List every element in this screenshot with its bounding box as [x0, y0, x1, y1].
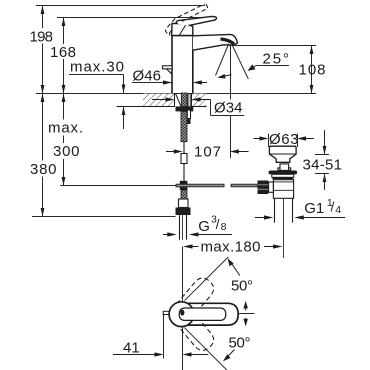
pop-up rod upper — [187, 110, 190, 119]
svg-text:/: / — [216, 216, 220, 232]
centerline stub right — [239, 313, 255, 315]
dimension G1 1/4 — [255, 217, 265, 219]
dimension 107 — [166, 151, 175, 153]
dimension 108 — [232, 45, 316, 47]
svg-text:107: 107 — [194, 144, 221, 161]
svg-text:108: 108 — [299, 62, 326, 79]
spray cone lines — [216, 44, 229, 76]
spout outlet dark band — [221, 39, 235, 44]
top view: lever stadium solid — [182, 303, 239, 325]
pop-up waste plug — [269, 146, 296, 162]
supply hose upper — [183, 142, 185, 154]
pop-up knob on body — [163, 66, 173, 69]
extension line top (198 level, top of raised lever) — [36, 5, 205, 7]
top view: dark recess dot — [180, 310, 184, 316]
label 380 — [29, 161, 57, 177]
svg-text:380: 380 — [30, 161, 57, 178]
deck slab right part — [192, 94, 207, 106]
svg-text:50°: 50° — [229, 335, 251, 352]
hose fitting — [181, 154, 187, 164]
svg-text:Ø46: Ø46 — [133, 68, 162, 85]
mounting shank in deck — [176, 94, 181, 107]
svg-text:50°: 50° — [231, 278, 253, 295]
threaded adjuster below junction — [181, 190, 187, 199]
svg-text:300: 300 — [53, 143, 80, 160]
svg-text:34-51: 34-51 — [303, 157, 343, 174]
handle base — [172, 24, 193, 36]
mounting nut — [176, 106, 194, 111]
svg-text:25°: 25° — [263, 51, 290, 68]
svg-text:41: 41 — [123, 339, 140, 356]
supply pipe — [179, 215, 181, 240]
faucet body — [172, 36, 193, 94]
hose lower — [183, 164, 185, 182]
top view: inner stadium — [179, 308, 226, 320]
svg-text:/: / — [331, 199, 335, 215]
svg-text:max.: max. — [48, 120, 83, 137]
top view: handle cap circle — [169, 302, 194, 327]
lever closed (solid) — [176, 16, 216, 25]
waste seal ring (dark) — [272, 177, 293, 179]
outlet extension line down — [230, 44, 232, 100]
extension line (168 level, top of closed lever) — [57, 17, 213, 19]
swing arc arrows — [245, 303, 247, 311]
linkage knurled nut — [258, 181, 269, 195]
top view: axis extension line — [182, 247, 184, 303]
G3/8 connector — [179, 199, 189, 208]
spout — [193, 34, 238, 50]
label max. 300 — [47, 120, 84, 136]
waste band under flange — [272, 174, 294, 177]
reference line hose end (max300) — [60, 185, 176, 187]
waste main body — [273, 180, 293, 199]
tailpipe axis line — [283, 198, 285, 258]
spray direction arrow — [223, 75, 232, 77]
svg-text:Ø63: Ø63 — [269, 131, 299, 148]
dimension Ø34 arrows in deck — [152, 99, 169, 101]
41 left extent — [163, 313, 165, 359]
extension line deck top — [36, 93, 316, 95]
waste flange (dark) — [269, 171, 297, 175]
svg-text:Ø34: Ø34 — [214, 100, 243, 117]
linkage clevis — [269, 182, 274, 192]
svg-text:198: 198 — [30, 29, 54, 46]
dimension line 198/380 vertical — [42, 6, 44, 217]
rod junction — [180, 181, 188, 190]
svg-text:G: G — [198, 218, 210, 235]
dimension max.180 — [183, 244, 193, 248]
svg-text:4: 4 — [335, 204, 341, 216]
top view: back stub — [163, 311, 171, 314]
dimension line 168/max300 vertical — [63, 18, 65, 186]
top view: dashed lever up 50 — [177, 274, 218, 317]
dimension 34-51 — [324, 130, 326, 155]
svg-text:8: 8 — [221, 221, 227, 233]
svg-text:G1: G1 — [304, 200, 324, 217]
lever open (dashed) — [166, 4, 205, 34]
label 168 — [49, 44, 77, 59]
tailpipe — [274, 198, 276, 222]
pop-up waste: dim Ø63 — [268, 134, 270, 148]
pop-up horizontal rod — [176, 184, 224, 187]
label 198 — [29, 28, 55, 44]
ray down 50 — [185, 328, 228, 370]
svg-text:max.180: max.180 — [201, 239, 261, 256]
ray up 50 — [185, 257, 229, 301]
svg-text:max.30: max.30 — [70, 59, 124, 76]
top view: dashed lever down 50 — [177, 311, 218, 354]
deck slab left part — [143, 94, 174, 106]
waste lift mechanism — [278, 168, 291, 171]
threaded shank below nut — [181, 111, 187, 141]
reference line pipe end (380) — [32, 216, 176, 218]
